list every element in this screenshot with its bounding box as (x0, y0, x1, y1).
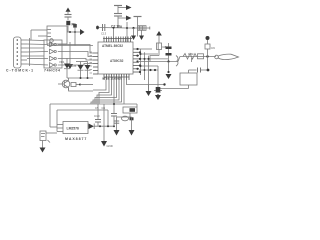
power arrow RF (156, 31, 162, 43)
node dot (69, 31, 71, 33)
ground arrow (67, 64, 73, 69)
svg-text:KD5: KD5 (71, 64, 77, 68)
connector J1 pins (17, 39, 19, 65)
psu inner left vertical (56, 110, 58, 132)
ground arrow 3 (114, 117, 120, 136)
wire (158, 88, 189, 90)
connector arrow out1 (126, 5, 132, 10)
node dot (163, 83, 165, 85)
relay box K1 (123, 104, 137, 113)
svg-text:C-TOMCK-1: C-TOMCK-1 (6, 69, 34, 73)
capacitor C9 (205, 44, 215, 50)
capacitor C4 (73, 24, 77, 32)
diode D7 (89, 124, 115, 130)
right mesh horizontals (139, 49, 168, 70)
wire (74, 32, 76, 46)
module box (180, 73, 197, 85)
node dot (80, 77, 82, 79)
MCU bottom pin row wire (104, 76, 129, 78)
capacitor C3 (65, 15, 72, 21)
psu right vertical (103, 104, 105, 126)
bus vertical (29, 38, 31, 66)
wires J1 to gates (27, 40, 48, 65)
diode D5 (78, 62, 84, 79)
wire (136, 84, 165, 86)
node dot (87, 77, 89, 79)
wire (69, 88, 94, 92)
svg-text:MAX8877: MAX8877 (65, 137, 87, 141)
svg-text:ATMEL 89C52: ATMEL 89C52 (102, 44, 123, 48)
lamp HL1 (122, 116, 134, 121)
wire (76, 61, 88, 63)
inductor L1 (183, 54, 197, 60)
mesh node dots (136, 48, 156, 73)
arrow out3 (80, 29, 85, 35)
node blob (96, 26, 99, 30)
node dot (167, 71, 169, 73)
svg-text:VD1: VD1 (59, 60, 65, 64)
wire (80, 84, 93, 86)
wire (188, 85, 190, 89)
regulator U4 box (63, 122, 88, 134)
MCU right pins (133, 49, 139, 72)
regulator left pins (50, 125, 63, 132)
resistor R6 (198, 54, 204, 59)
wire (188, 70, 190, 73)
ground bus wire (69, 42, 71, 64)
wire (157, 89, 159, 91)
diode D6 (85, 62, 91, 79)
transistor Q1 (58, 78, 70, 90)
node dot (207, 69, 210, 72)
capacitor C13 (101, 24, 107, 36)
MCU bottom wire bundle (91, 80, 136, 104)
svg-text:C13: C13 (101, 32, 107, 36)
capacitor C8 (189, 68, 208, 73)
power rail +5V top bar (114, 6, 122, 14)
wire (127, 27, 150, 29)
ground arrow psu (101, 126, 113, 148)
main RF wire (139, 61, 178, 63)
MCU top pin row wire (103, 38, 132, 40)
resistor R4 (157, 43, 167, 56)
wire (67, 77, 93, 79)
op-amp U2 box (47, 26, 67, 46)
svg-text:C9: C9 (211, 46, 215, 50)
wire (98, 27, 128, 30)
wire vertical (207, 38, 209, 70)
diode D3 down (131, 28, 136, 40)
wire vertical (30, 30, 32, 40)
svg-text:C6: C6 (102, 106, 106, 110)
capacitor C12 (114, 121, 119, 123)
capacitor C10 (94, 104, 101, 126)
node dot (107, 125, 109, 127)
resistor R2 (138, 26, 146, 31)
resistor R3 (71, 83, 80, 87)
MCU left pin numbers (90, 52, 93, 73)
svg-text:LM2576: LM2576 (67, 127, 80, 131)
MCU left pins (93, 53, 98, 74)
wire gate4 out (58, 64, 93, 66)
MCU bottom pins (104, 74, 129, 80)
wire (67, 31, 80, 33)
svg-text:C5: C5 (95, 106, 99, 110)
svg-text:74HC04: 74HC04 (44, 69, 61, 73)
wire (118, 17, 126, 19)
wire end tick (149, 27, 151, 30)
resistor R7 (155, 66, 161, 100)
wire step up (178, 57, 216, 62)
diode D1 (64, 58, 70, 78)
wire (168, 62, 170, 74)
capacitor C11 (113, 104, 115, 114)
MCU U1 box (98, 42, 133, 74)
psu left vertical (49, 104, 51, 127)
node dot (74, 31, 76, 33)
node dot (126, 27, 128, 29)
node dot (132, 27, 134, 29)
svg-text:GND: GND (107, 144, 113, 148)
wire gate1 out (58, 45, 93, 54)
inverter gate 1 (50, 42, 57, 47)
ground arrow 4 (129, 117, 135, 136)
brace (176, 56, 178, 67)
wire (150, 56, 159, 62)
diode D4 down (139, 31, 144, 41)
node dot (79, 84, 81, 86)
node dot (206, 55, 208, 57)
capacitor C1 (114, 14, 122, 29)
wire (118, 7, 126, 9)
antenna W1 (215, 54, 239, 59)
wire gate2 out (58, 52, 93, 57)
connector arrow out2 (126, 16, 132, 21)
crystal X1 (66, 21, 76, 32)
wire (117, 113, 132, 117)
power arrow VD+ top-left (66, 8, 71, 15)
connector J1 pin stubs (21, 40, 27, 64)
inverter bank U3 box (44, 40, 62, 68)
right mesh verticals (141, 49, 149, 91)
inverter gate 3 (50, 56, 57, 61)
MCU top pins (104, 37, 130, 43)
ground arrow 2 (146, 85, 152, 97)
wire vertical (126, 22, 128, 42)
node dot (99, 125, 101, 127)
wire vertical (113, 28, 115, 37)
node dot (167, 60, 169, 62)
psu outer loop wire (50, 103, 137, 105)
node blob (206, 36, 210, 40)
wire (47, 45, 93, 47)
jack J3 (40, 131, 57, 143)
ground arrow jack (40, 141, 46, 153)
connector J1 body (14, 37, 22, 68)
wire (31, 29, 47, 31)
capacitor C6 (166, 43, 172, 62)
wire gate3 out (58, 59, 93, 61)
psu inner loop wire (57, 109, 108, 111)
svg-text:AT89C52: AT89C52 (110, 59, 124, 63)
ground arrow (166, 74, 172, 79)
node dot (113, 27, 115, 29)
svg-text:C10: C10 (94, 114, 100, 118)
inverter gate 2 (50, 49, 57, 54)
psu inner right vertical (107, 110, 109, 126)
ground GND1 (154, 91, 162, 95)
label R5 (188, 52, 194, 62)
wire (38, 35, 47, 37)
inverter gate 4 (50, 63, 57, 68)
power rail bar right (134, 17, 142, 37)
